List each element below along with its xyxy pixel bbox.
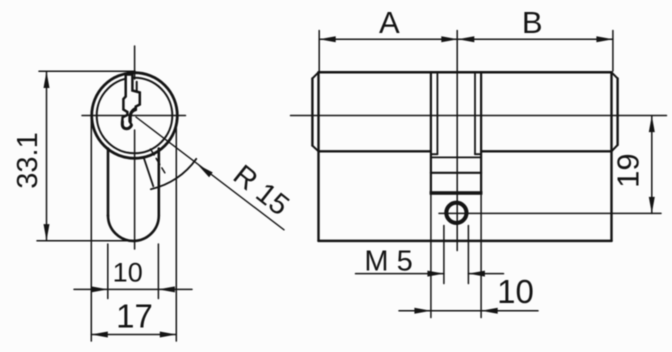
screw hole circle M5 [446, 203, 466, 223]
dim 17 left extension line [90, 120, 92, 341]
dim A B dimension line [319, 38, 613, 40]
front view horizontal centerline [82, 115, 186, 117]
left inner foot [431, 153, 438, 155]
dim 10 left extension line [107, 244, 109, 299]
dim 33.1 bottom extension line [37, 240, 135, 242]
arrow 19 top [649, 116, 655, 133]
front view inner circle [97, 78, 173, 154]
dim M5 dimension line right [468, 273, 503, 275]
dim M5 dimension line left [356, 273, 444, 275]
svg-text:19: 19 [610, 153, 645, 187]
arrow 10 left outside [91, 286, 108, 292]
arrow M5 left [427, 271, 444, 277]
side view left end vertical [317, 72, 319, 241]
dim M5 left extension [443, 226, 445, 284]
keyway side groove line [136, 82, 138, 93]
front view body bottom arc [108, 216, 159, 241]
front view body right side [158, 149, 161, 216]
front view vertical centerline upper [134, 46, 136, 79]
arrow B left [458, 36, 475, 42]
dim 10 right view dimension line [399, 310, 538, 312]
middle vertical centerline [456, 31, 458, 251]
svg-text:B: B [522, 5, 543, 40]
dim 19 dimension line [651, 116, 653, 214]
arrow M5 right [468, 271, 485, 277]
arrow R15 on arc [198, 165, 213, 177]
side view axis centerline [291, 115, 667, 117]
cam mid line [431, 172, 481, 174]
svg-text:33.1: 33.1 [12, 132, 44, 188]
dim 17 dimension line [91, 334, 176, 336]
side view left face [311, 78, 313, 145]
arrow A left [319, 36, 336, 42]
dim 10 right view right extension [480, 195, 482, 318]
dim 33.1 dimension line [46, 71, 48, 241]
right face top chamfer [612, 72, 618, 78]
R15 leader line [136, 117, 284, 230]
svg-text:17: 17 [116, 298, 153, 335]
side view right end vertical [610, 72, 612, 241]
svg-text:M 5: M 5 [364, 246, 412, 278]
front view body left side [107, 149, 110, 216]
shoulder line right part [481, 150, 611, 152]
side view top edge [319, 71, 612, 74]
right inner foot [475, 153, 481, 155]
cam bold bottom [430, 191, 483, 195]
arrow 10 right outside [158, 286, 175, 292]
front view vertical centerline lower [134, 130, 136, 249]
keyway hook bottom shade [122, 122, 131, 129]
cam slot right outer vertical [480, 72, 482, 193]
arrow 19 bottom [649, 197, 655, 214]
cam dashed radial [151, 149, 165, 173]
dim 10 right extension line [157, 244, 159, 299]
arrow 33.1 bottom [44, 224, 50, 241]
front view outer circle [92, 73, 178, 159]
side view bottom edge [319, 240, 612, 243]
svg-text:10: 10 [497, 273, 534, 310]
cam top line [431, 156, 481, 158]
arrow 33.1 top [44, 72, 50, 89]
R15 cam arc [151, 159, 197, 189]
cam slot right inner vertical [474, 72, 476, 154]
dim 10 dimension line [74, 288, 192, 290]
dim 19 bottom extension [439, 212, 661, 214]
arrow B right [596, 36, 613, 42]
svg-text:A: A [379, 5, 400, 40]
right face bottom chamfer [612, 145, 618, 151]
side view right face [616, 78, 618, 145]
arrow 10R right [481, 308, 498, 314]
dim A left extension [318, 31, 320, 72]
arrow 10R left [414, 308, 431, 314]
cam slot left outer vertical [430, 72, 432, 193]
dim 10 right view left extension [430, 195, 432, 318]
cam lower radial [144, 158, 154, 187]
dim 33.1 top extension line [39, 70, 135, 72]
cam slot left inner vertical [436, 72, 438, 154]
svg-text:10: 10 [113, 258, 143, 288]
arrow 17 left [91, 332, 108, 338]
dim M5 right extension [467, 226, 469, 284]
shoulder line left part [319, 150, 431, 152]
dim B right extension [612, 31, 614, 72]
left face top chamfer [312, 72, 318, 78]
dim 17 right extension line [175, 120, 177, 341]
arrow 17 right [160, 332, 177, 338]
left face bottom chamfer [312, 146, 318, 152]
keyway hook inner shade [130, 109, 135, 122]
keyway profile slot [122, 75, 140, 129]
arrow A right [441, 36, 458, 42]
